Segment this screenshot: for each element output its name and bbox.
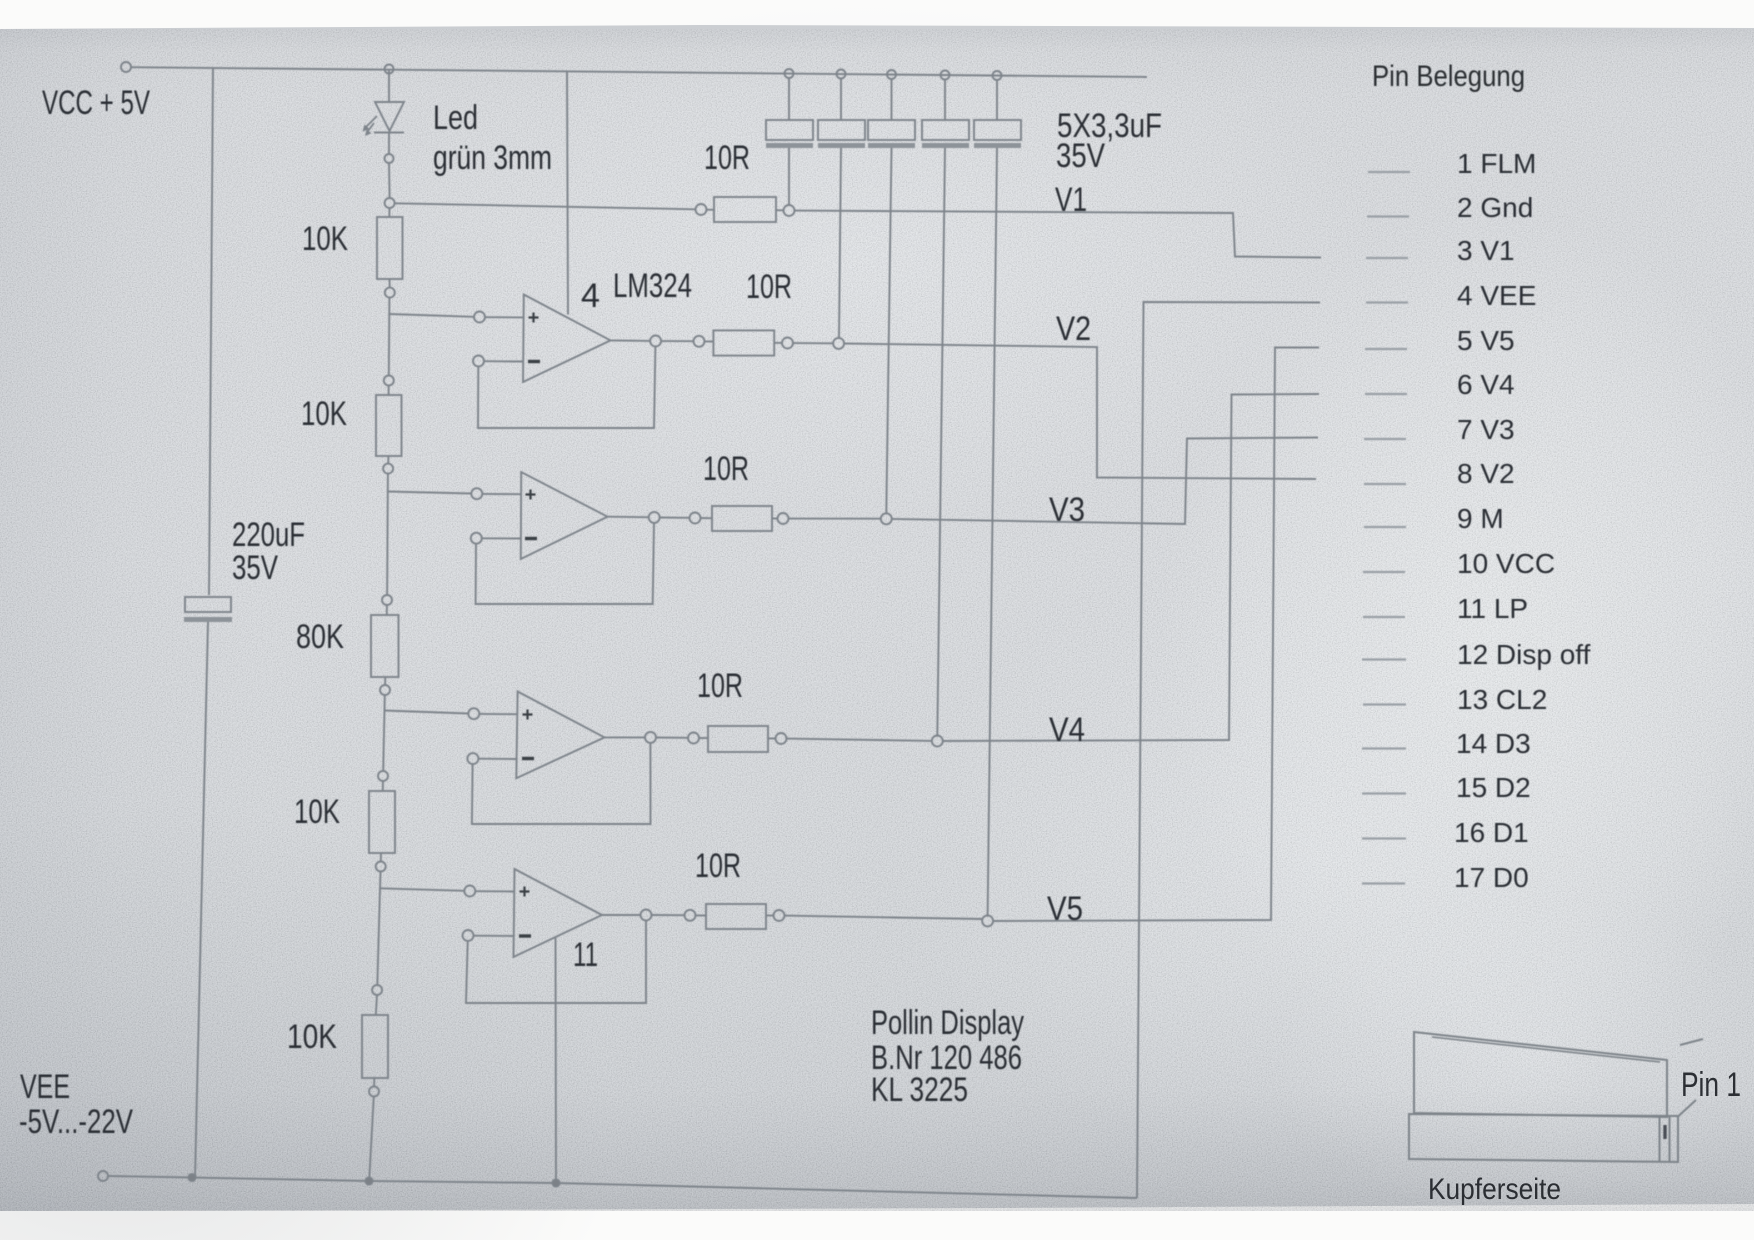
resistor R6 10R <box>714 197 776 222</box>
pin 15 connector dash <box>1362 792 1406 794</box>
pin 1 slot line a <box>1659 1117 1661 1162</box>
svg-text:KL 3225: KL 3225 <box>871 1071 968 1109</box>
pin 12 connector dash <box>1362 658 1406 660</box>
pin 17 connector dash <box>1362 882 1405 884</box>
svg-text:9 M: 9 M <box>1457 503 1504 534</box>
wire V3 to C3 junction <box>789 518 881 520</box>
svg-text:2 Gnd: 2 Gnd <box>1457 192 1533 223</box>
node op2 plus <box>471 488 482 499</box>
op2 plus sign <box>526 490 536 500</box>
pin 5 connector dash <box>1365 348 1407 350</box>
wire op3 out segment <box>656 737 688 739</box>
wire chain E-F with tap3 <box>383 695 385 771</box>
node V3 x C3 junction <box>881 513 892 524</box>
svg-text:10R: 10R <box>746 268 792 306</box>
svg-text:10R: 10R <box>695 847 741 885</box>
node R6 left <box>696 204 707 215</box>
wire V1 left segment <box>395 203 696 209</box>
wire R1 bottom <box>389 279 391 288</box>
capacitor C4 bottom plate <box>922 143 969 148</box>
node V2 x C2 junction <box>833 338 844 349</box>
wire op3 output <box>605 736 646 738</box>
node C5 top <box>993 71 1002 80</box>
wire node D to R3 <box>386 605 388 615</box>
svg-text:14 D3: 14 D3 <box>1456 728 1531 759</box>
svg-text:Kupferseite: Kupferseite <box>1428 1173 1561 1206</box>
svg-text:16 D1: 16 D1 <box>1454 817 1529 848</box>
wire chain C-D with tap2 <box>386 474 389 595</box>
node C3 top <box>887 70 896 79</box>
svg-text:VEE: VEE <box>20 1068 70 1106</box>
wire op3 plus to triangle <box>479 713 517 715</box>
node LED top <box>385 65 394 74</box>
capacitor C2 top plate <box>818 120 865 140</box>
LED D1 light arrow 2 <box>365 123 374 136</box>
svg-text:Pin 1: Pin 1 <box>1681 1066 1741 1104</box>
node chain I <box>372 985 382 995</box>
svg-text:V2: V2 <box>1056 310 1091 348</box>
resistor R8 10R <box>712 506 772 531</box>
svg-text:13 CL2: 13 CL2 <box>1457 684 1547 715</box>
wire V3 right segment <box>892 438 1318 525</box>
wire stub R10 right <box>766 915 774 917</box>
op2 minus sign <box>525 537 537 540</box>
svg-text:4: 4 <box>581 277 600 315</box>
svg-text:V1: V1 <box>1055 181 1087 219</box>
wire LED to V1 node <box>388 163 391 198</box>
node chain C <box>383 464 393 474</box>
node chain E <box>380 685 390 695</box>
capacitor C5 wire top <box>996 80 998 120</box>
wire stub R8 left <box>701 517 713 519</box>
pin 9 connector dash <box>1364 526 1406 528</box>
wire chain J to VEE rail <box>369 1097 374 1179</box>
pin 16 connector dash <box>1362 837 1406 839</box>
node op3 plus <box>468 708 479 719</box>
schematic drawing <box>121 62 1321 1178</box>
node V1 tap <box>385 198 395 208</box>
op-amp U1B triangle <box>521 472 608 559</box>
op-amp U1C triangle <box>516 692 604 779</box>
svg-text:10K: 10K <box>302 220 348 258</box>
svg-text:80K: 80K <box>296 618 344 656</box>
op4 minus sign <box>519 934 531 937</box>
wire op1 V+ pin4 from VCC <box>567 71 568 314</box>
svg-text:Pollin Display: Pollin Display <box>871 1004 1024 1042</box>
pin 6 connector dash <box>1365 393 1407 395</box>
resistor R1 10K <box>377 217 403 279</box>
wire V5 to C5 junction <box>785 916 983 919</box>
svg-text:15 D2: 15 D2 <box>1456 772 1531 803</box>
node chain B <box>384 376 394 386</box>
wire V1 to pin3 <box>795 211 1322 258</box>
pin 1 callout line <box>1678 1100 1696 1117</box>
node V1 x C1 junction <box>784 205 795 216</box>
wire V5 right segment <box>993 348 1319 922</box>
wire VEE bottom rail <box>108 1176 1137 1198</box>
svg-text:11 LP: 11 LP <box>1457 593 1528 624</box>
wire chain G-H with tap4 <box>377 872 380 986</box>
stray mark above pin1 <box>1680 1039 1703 1045</box>
capacitor C1 wire bottom <box>788 148 790 205</box>
wire stub R8 right <box>772 517 778 519</box>
svg-text:grün 3mm: grün 3mm <box>433 139 552 177</box>
node R10 left <box>685 910 696 921</box>
wire op2 output <box>608 516 649 519</box>
wire op2 feedback loop <box>476 523 654 604</box>
pcb outline <box>1409 1114 1678 1162</box>
wire left VCC rail upper <box>209 68 213 595</box>
capacitor C3 wire top <box>891 79 893 120</box>
svg-text:V3: V3 <box>1049 491 1085 529</box>
wire V4 right segment <box>943 394 1319 741</box>
pin 4 connector dash <box>1366 301 1408 303</box>
display connector drawing bottom right <box>1409 1032 1703 1162</box>
pin 7 connector dash <box>1364 438 1406 440</box>
svg-text:10R: 10R <box>704 139 750 177</box>
node V4 x C4 junction <box>932 736 943 747</box>
pin 1 slot line b <box>1669 1117 1671 1163</box>
svg-text:10K: 10K <box>287 1018 337 1056</box>
node chain A <box>385 288 395 298</box>
svg-text:4 VEE: 4 VEE <box>1457 280 1536 311</box>
pin 2 connector dash <box>1367 215 1409 217</box>
display glass top inner edge <box>1432 1037 1660 1062</box>
resistor R4 10K <box>369 791 395 853</box>
node R7 right <box>782 338 793 349</box>
capacitor C1 wire top <box>788 78 790 120</box>
node R8 left <box>690 513 701 524</box>
node op3 output <box>645 732 656 743</box>
wire V2 to C2 junction <box>793 342 833 344</box>
display glass outline <box>1414 1032 1667 1117</box>
wire chain node to R1 <box>388 208 390 217</box>
pin 14 connector dash <box>1362 747 1406 749</box>
wire op4 plus to triangle <box>475 890 514 892</box>
wire tap op3 plus <box>384 711 468 714</box>
op3 minus sign <box>522 757 534 760</box>
node R9 left <box>688 733 699 744</box>
wire op4 minus input <box>474 935 515 937</box>
resistor R3 80K <box>371 615 399 677</box>
node op1 plus <box>474 312 485 323</box>
node chain D <box>382 595 392 605</box>
op-amp plus minus signs <box>519 313 540 937</box>
wire stub R7 left <box>705 340 714 342</box>
schematic middle <box>98 71 1320 1198</box>
capacitor C5 wire bottom <box>988 148 997 916</box>
wire node F to R4 <box>382 781 384 791</box>
wire op1 out segment <box>661 340 693 342</box>
LED D1 cathode bar <box>374 132 404 134</box>
pin 1 connector dash <box>1368 171 1410 173</box>
wire op1 output <box>611 339 651 342</box>
wire op1 minus input <box>484 360 523 362</box>
LED D1 green triangle <box>375 102 404 131</box>
capacitor C1 top plate <box>766 120 813 140</box>
resistor R5 10K <box>362 1015 388 1078</box>
node VCC terminal <box>121 62 131 72</box>
LED D1 light arrow 1 <box>363 116 378 132</box>
wire V2 right segment <box>844 344 1316 480</box>
svg-text:35V: 35V <box>1056 137 1105 175</box>
capacitor C4 top plate <box>922 120 969 140</box>
capacitor C2 bottom plate <box>818 143 865 148</box>
capacitor C1 bottom plate <box>766 143 813 148</box>
wire LED cathode <box>388 133 390 154</box>
wire left VEE rail lower <box>195 622 208 1178</box>
wire tap op1 plus <box>389 314 474 317</box>
node chain F <box>378 771 388 781</box>
pin 8 connector dash <box>1364 483 1406 485</box>
pin 13 connector dash <box>1363 703 1406 705</box>
resistor R10 10R <box>706 904 766 929</box>
node R7 left <box>694 336 705 347</box>
pin assignment list <box>1362 60 1591 893</box>
svg-text:7 V3: 7 V3 <box>1457 414 1515 445</box>
node R8 right <box>778 513 789 524</box>
svg-text:10 VCC: 10 VCC <box>1457 548 1555 579</box>
capacitor C6 220uF top plate <box>185 597 231 612</box>
svg-text:10K: 10K <box>294 793 340 831</box>
wire tap op4 plus <box>380 888 464 891</box>
junction dot bottom rail pin11 <box>552 1179 559 1186</box>
svg-text:V4: V4 <box>1049 711 1085 749</box>
svg-text:17 D0: 17 D0 <box>1454 862 1529 893</box>
wire node B to R2 <box>388 386 390 396</box>
wire stub R9 left <box>699 737 708 739</box>
wire op2 out segment <box>660 517 690 519</box>
wire VCC top rail <box>131 67 1147 77</box>
wire op3 feedback loop <box>472 743 651 824</box>
svg-text:10R: 10R <box>697 667 743 705</box>
wire op1 feedback loop <box>478 347 655 429</box>
junction dot bottom rail left <box>188 1174 195 1181</box>
capacitor C5 bottom plate <box>974 143 1021 148</box>
node chain J <box>369 1087 379 1097</box>
capacitor C3 top plate <box>868 120 915 140</box>
wire op2 plus to triangle <box>482 493 521 495</box>
svg-text:3 V1: 3 V1 <box>1457 235 1515 266</box>
resistor R2 10K <box>376 395 402 456</box>
node V5 x C5 junction <box>982 915 993 926</box>
wire R5 bottom <box>373 1078 375 1087</box>
node C2 top <box>837 70 846 79</box>
pin 1 mark <box>1663 1125 1666 1139</box>
op4 plus sign <box>520 887 530 897</box>
node op4 plus <box>464 886 475 897</box>
capacitor C6 220uF bottom plate <box>184 617 232 622</box>
wire LED anode <box>388 69 390 101</box>
svg-text:10R: 10R <box>703 450 749 488</box>
wire tap op2 plus <box>388 492 472 494</box>
capacitor C3 wire bottom <box>886 148 891 514</box>
node C1 top <box>785 69 794 78</box>
junction dot bottom rail chain <box>365 1177 372 1184</box>
node C4 top <box>941 71 950 80</box>
wire VEE pin4 stub and rail <box>1137 302 1320 1198</box>
op1 minus sign <box>528 360 540 363</box>
svg-text:11: 11 <box>573 936 598 974</box>
capacitor C5 top plate <box>974 120 1021 140</box>
svg-text:-5V...-22V: -5V...-22V <box>19 1103 133 1141</box>
wire R4 bottom <box>380 853 382 862</box>
svg-text:10K: 10K <box>301 395 347 433</box>
svg-text:LM324: LM324 <box>613 267 692 305</box>
svg-text:5 V5: 5 V5 <box>1457 325 1515 356</box>
wire stub R10 left <box>696 914 707 916</box>
node below LED <box>385 154 394 163</box>
op-amp U1A triangle <box>523 295 611 383</box>
wire op4 feedback loop <box>466 921 646 1004</box>
svg-text:V5: V5 <box>1047 890 1083 928</box>
svg-text:12 Disp off: 12 Disp off <box>1457 639 1591 670</box>
node op1 output <box>650 336 661 347</box>
node op4 output <box>641 910 652 921</box>
pin 10 connector dash <box>1363 571 1405 573</box>
svg-text:35V: 35V <box>232 549 278 587</box>
wire stub R6 right <box>776 209 784 211</box>
wire op4 out segment <box>652 914 685 916</box>
node chain G <box>376 862 386 872</box>
texts block 2 <box>19 139 1091 1141</box>
node VEE terminal <box>98 1171 108 1181</box>
capacitor C4 wire top <box>944 80 946 121</box>
wire op3 minus input <box>478 758 516 760</box>
texts block 1 <box>42 84 1162 587</box>
capacitor C2 wire top <box>840 79 842 121</box>
svg-text:Pin Belegung: Pin Belegung <box>1372 60 1525 93</box>
svg-text:Led: Led <box>433 99 478 137</box>
wire stub R9 right <box>768 737 776 739</box>
resistor R7 10R <box>713 330 774 355</box>
wire stub R6 left <box>707 209 715 211</box>
op-amp U1D triangle <box>514 869 603 957</box>
node op3 minus <box>467 753 478 764</box>
svg-text:8 V2: 8 V2 <box>1457 458 1515 489</box>
node op2 minus <box>471 533 482 544</box>
resistor R9 10R <box>708 726 768 752</box>
op1 plus sign <box>529 313 539 323</box>
capacitor C3 bottom plate <box>868 143 915 148</box>
node op2 output <box>649 512 660 523</box>
wire R3 bottom <box>384 677 386 685</box>
pin 3 connector dash <box>1366 257 1408 259</box>
wire op4 output <box>602 914 641 916</box>
wire op4 V- pin11 to VEE <box>555 938 558 1183</box>
wire stub R7 right <box>774 342 782 344</box>
node op4 minus <box>463 930 474 941</box>
node R9 right <box>776 733 787 744</box>
wire op1 plus to triangle <box>485 316 524 318</box>
svg-text:1 FLM: 1 FLM <box>1457 148 1536 179</box>
wire V4 to C4 junction <box>787 739 932 741</box>
wire R2 bottom <box>387 456 389 464</box>
svg-text:6 V4: 6 V4 <box>1457 369 1515 400</box>
node R10 right <box>774 910 785 921</box>
op3 plus sign <box>523 710 533 720</box>
wire node I to R5 <box>376 995 377 1015</box>
wire chain A-B with tap1 <box>388 298 391 376</box>
wire op2 minus input <box>482 537 521 539</box>
node op1 minus <box>473 356 484 367</box>
capacitor C4 wire bottom <box>937 148 945 736</box>
svg-text:VCC + 5V: VCC + 5V <box>42 84 150 122</box>
capacitor C2 wire bottom <box>839 148 841 338</box>
pin 11 connector dash <box>1363 616 1405 618</box>
